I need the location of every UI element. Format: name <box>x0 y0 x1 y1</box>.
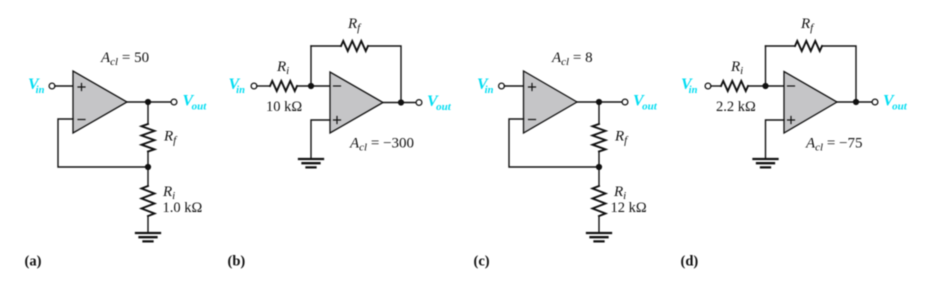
resistor Ri (d) <box>721 81 748 91</box>
wire output (a) <box>127 101 172 103</box>
terminal Vout (a) <box>171 99 177 105</box>
svg-text:Acl = 50: Acl = 50 <box>100 50 149 68</box>
ground (b) <box>299 159 323 167</box>
wire junction up to feedback rail (b) <box>310 46 312 86</box>
pin - (a) <box>78 119 85 121</box>
op-amp U1 (d) <box>784 72 837 134</box>
junction output node (c) <box>596 99 602 105</box>
ground (c) <box>587 233 611 241</box>
wire junction up to feedback rail (d) <box>765 46 767 86</box>
svg-text:(a): (a) <box>25 254 42 270</box>
terminal Vout (b) <box>416 100 422 106</box>
svg-text:12 kΩ: 12 kΩ <box>611 200 647 216</box>
wire feedback to - input (a) <box>58 119 148 167</box>
resistor Ri (a) <box>142 186 155 216</box>
svg-text:1.0 kΩ: 1.0 kΩ <box>163 200 203 216</box>
op-amp U1 (a) <box>73 71 127 133</box>
ground (a) <box>136 233 160 241</box>
wire Vin to + input (c) <box>504 85 523 87</box>
svg-text:Acl = 8: Acl = 8 <box>551 50 593 68</box>
terminal Vout (d) <box>872 99 878 105</box>
wire output (d) <box>837 101 873 103</box>
wire output to Rf (c) <box>598 102 600 124</box>
junction input node (b) <box>308 83 314 89</box>
pin + (b) <box>334 117 341 124</box>
terminal Vin (d) <box>705 83 711 89</box>
svg-text:(c): (c) <box>474 254 490 270</box>
resistor Rf (d) <box>795 41 822 51</box>
svg-text:2.2 kΩ: 2.2 kΩ <box>716 99 756 115</box>
resistor Ri (c) <box>593 186 606 216</box>
junction output node (d) <box>853 99 859 105</box>
wire feedback rail right and down to output (d) <box>822 46 856 102</box>
resistor Ri (b) <box>270 81 297 91</box>
wire output (b) <box>383 102 417 104</box>
wire feedback to - input (c) <box>509 119 599 167</box>
pin + (a) <box>78 84 85 91</box>
pin - (b) <box>334 85 341 87</box>
wire + input to ground (d) <box>766 120 785 158</box>
wire feedback rail left (d) <box>766 45 796 47</box>
junction feedback node (c) <box>596 164 602 170</box>
resistor Rf (c) <box>593 124 606 152</box>
wire feedback rail right and down to output (b) <box>368 46 401 103</box>
wire Ri to - input (d) <box>748 85 784 87</box>
wire Rf to junction (a) <box>147 152 149 187</box>
terminal Vout (c) <box>622 99 628 105</box>
junction input node (d) <box>762 83 768 89</box>
pin - (c) <box>529 119 536 121</box>
wire + input to ground (b) <box>311 120 330 158</box>
terminal Vin (c) <box>499 83 505 89</box>
wire output to Rf (a) <box>147 102 149 124</box>
terminal Vin (b) <box>251 83 257 89</box>
svg-text:10 kΩ: 10 kΩ <box>266 99 302 115</box>
wire feedback rail left (b) <box>311 45 341 47</box>
pin + (c) <box>529 84 536 91</box>
junction output node (a) <box>145 99 151 105</box>
terminal Vin (a) <box>49 83 55 89</box>
junction output node (b) <box>398 99 404 105</box>
resistor Rf (a) <box>142 124 155 152</box>
wire output (c) <box>577 101 623 103</box>
op-amp U1 (c) <box>524 71 578 133</box>
wire Vin to Ri (b) <box>257 85 270 87</box>
wire Vin to + input (a) <box>55 85 73 87</box>
op-amp U1 (b) <box>330 72 383 133</box>
svg-text:(d): (d) <box>681 254 699 270</box>
wire Ri to ground (c) <box>598 216 600 232</box>
pin - (d) <box>788 85 795 87</box>
resistor Rf (b) <box>341 41 368 51</box>
junction feedback node (a) <box>145 164 151 170</box>
ground (d) <box>754 159 778 167</box>
svg-text:Acl = −75: Acl = −75 <box>805 136 863 154</box>
wire Vin to Ri (d) <box>711 85 721 87</box>
wire Rf to junction (c) <box>598 152 600 187</box>
svg-text:(b): (b) <box>228 254 246 270</box>
wire Ri to ground (a) <box>147 216 149 232</box>
wire Ri to - input (b) <box>297 85 330 87</box>
svg-text:Acl = −300: Acl = −300 <box>349 136 414 154</box>
pin + (d) <box>788 117 795 124</box>
